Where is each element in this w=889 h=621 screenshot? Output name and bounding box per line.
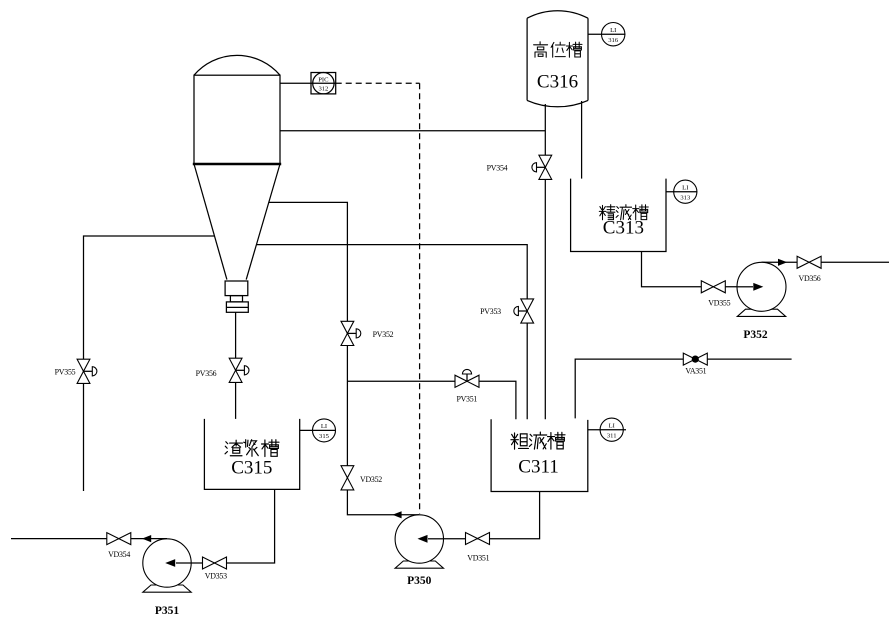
valve VD351 (gate)	[466, 533, 490, 545]
instrument PIC312 square	[311, 73, 336, 94]
valve VD354 (gate)	[107, 533, 131, 545]
evaporator cone right side	[246, 164, 280, 280]
wire P351 discharge through VD354 to left edge	[11, 538, 167, 540]
valve VA351 (gate with ball)	[683, 353, 707, 365]
pump P350 casing	[395, 515, 443, 563]
tank C316 top arc	[527, 11, 588, 19]
evaporator vessel body	[194, 75, 280, 164]
svg-text:PV355: PV355	[55, 368, 76, 377]
arrow on P350 discharge	[392, 511, 401, 518]
label 精液槽 (C313)	[599, 205, 615, 220]
svg-text:VD352: VD352	[360, 475, 382, 484]
svg-text:VD356: VD356	[799, 274, 821, 283]
tank C315 open-top	[204, 419, 299, 490]
svg-text:311: 311	[607, 433, 617, 440]
wire C316 left outlet down through PV354 into C311	[544, 104, 546, 419]
pump P352 casing	[737, 262, 786, 311]
instrument LI311	[588, 418, 626, 441]
valve VD355 (gate)	[701, 281, 725, 293]
valve PV353 (control, actuator left)	[514, 299, 534, 323]
tank C313 open-top	[571, 179, 666, 252]
wire signal dashed vertical to pump P350	[419, 83, 421, 513]
wire branch through PV351 into C311	[347, 381, 516, 419]
svg-text:PV356: PV356	[196, 369, 217, 378]
valve PV355 (control, actuator right)	[77, 359, 97, 383]
valve PV356 (control, actuator right)	[229, 358, 249, 382]
wire C311 bottom outlet through VD351 to P350 inlet	[429, 492, 540, 539]
wire cone upper right outlet over and down to P350 discharge	[269, 202, 420, 514]
instrument LI316	[588, 23, 625, 46]
svg-text:PV351: PV351	[456, 394, 477, 403]
valve VD353 (gate)	[203, 557, 227, 569]
pump P350 inlet arrow	[428, 538, 444, 540]
arrow on P351 discharge	[142, 535, 151, 542]
wire C313 bottom outlet through VD355 to P352 inlet	[642, 252, 752, 287]
svg-text:VD355: VD355	[708, 299, 730, 308]
valve PV352 (control, actuator right)	[341, 321, 361, 345]
valve PV351 (control, actuator top)	[455, 369, 479, 387]
wire VA351 feed line into C311	[575, 359, 791, 418]
wire vessel top to PIC312	[280, 82, 336, 84]
svg-text:VA351: VA351	[685, 366, 706, 375]
wire cone lower right outlet over and down through PV353 into C311	[256, 245, 527, 420]
valve VD352 (gate, vertical)	[341, 466, 354, 490]
wire vessel right outlet to C316 leg	[280, 130, 545, 132]
valve VD356 (gate)	[797, 256, 821, 268]
pump P352 base	[737, 309, 785, 316]
wire C316 right outlet into C313	[581, 101, 583, 179]
svg-text:VD353: VD353	[205, 572, 227, 581]
wire signal dashed horizontal PIC312 to node	[336, 82, 420, 84]
cone outlet bottom flange plates	[226, 302, 248, 312]
tank C311 open-top	[491, 419, 588, 491]
instrument PIC312 circle	[313, 73, 334, 94]
svg-text:C313: C313	[603, 217, 644, 238]
svg-text:316: 316	[608, 37, 619, 44]
label 渣浆槽 (C315)	[225, 440, 242, 456]
svg-text:312: 312	[318, 86, 328, 93]
svg-text:PIC: PIC	[318, 76, 329, 83]
evaporator vessel bottom thick edge	[193, 163, 281, 166]
valve PV354 (control, actuator left)	[532, 155, 552, 179]
tank C316 (capsule) left side	[526, 18, 528, 100]
svg-text:313: 313	[680, 195, 691, 202]
tank C316 bottom arc	[527, 100, 588, 106]
arrow on P352 discharge	[778, 259, 787, 266]
label 粗液槽 (C311)	[511, 433, 528, 449]
svg-text:VD351: VD351	[467, 554, 489, 563]
pump P351 base	[143, 585, 191, 592]
wire cone left outlet over and down	[84, 236, 215, 491]
svg-text:C315: C315	[231, 457, 272, 478]
svg-text:LI: LI	[609, 423, 615, 430]
wire vessel bottom outlet through PV356 into C315	[235, 313, 237, 419]
svg-text:PV352: PV352	[373, 330, 394, 339]
svg-text:P350: P350	[407, 575, 432, 587]
wire C315 bottom outlet through VD353 to P351 inlet	[177, 489, 275, 563]
svg-text:LI: LI	[610, 27, 616, 34]
svg-text:315: 315	[319, 433, 330, 440]
svg-text:PV353: PV353	[480, 307, 501, 316]
svg-text:PV354: PV354	[487, 163, 508, 172]
svg-text:C311: C311	[518, 456, 558, 477]
svg-text:P351: P351	[155, 605, 180, 617]
svg-text:C316: C316	[537, 72, 578, 93]
label 高位槽 (C316)	[534, 42, 548, 57]
wire P352 discharge through VD356 to right edge	[762, 261, 889, 263]
tank C316 right side	[587, 18, 589, 100]
pump P350 base	[395, 561, 443, 568]
svg-text:LI: LI	[682, 185, 688, 192]
svg-text:VD354: VD354	[108, 550, 130, 559]
instrument LI313	[666, 180, 697, 203]
cone outlet neck	[230, 296, 242, 302]
evaporator vessel dome top	[194, 55, 280, 75]
cone outlet flange box	[225, 281, 248, 296]
pump P351 casing	[143, 539, 191, 587]
evaporator cone left side	[194, 164, 227, 280]
instrument LI315	[300, 419, 336, 442]
pump P352 inlet arrow	[737, 286, 753, 288]
svg-text:P352: P352	[743, 329, 768, 341]
pump P351 inlet arrow	[176, 562, 191, 564]
svg-text:LI: LI	[321, 423, 327, 430]
